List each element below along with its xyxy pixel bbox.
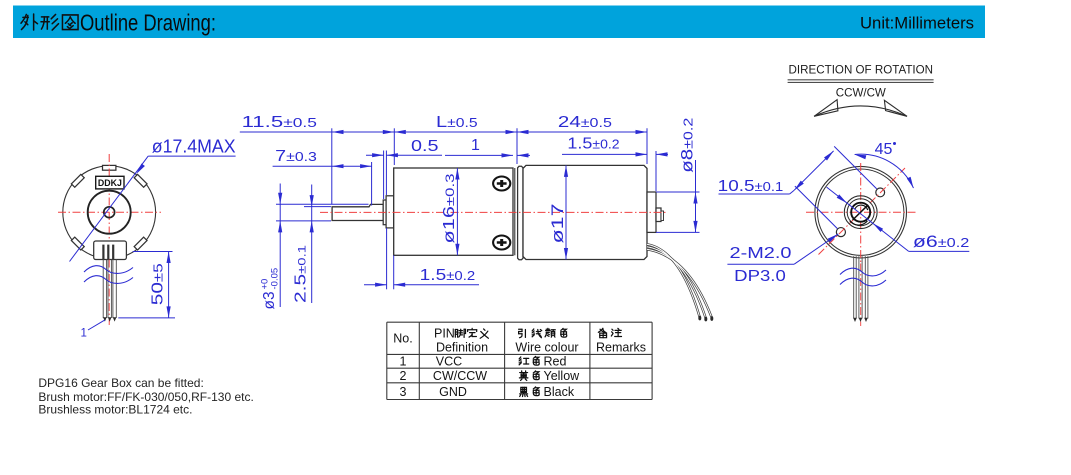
screw bottom: [493, 236, 510, 250]
svg-text:Definition: Definition: [436, 341, 488, 355]
dimension ø16±0.3: [441, 168, 460, 255]
svg-text:24±0.5: 24±0.5: [558, 114, 612, 131]
svg-text:1: 1: [81, 328, 87, 340]
dimension 24±0.5: [517, 114, 647, 164]
svg-text:1.5±0.2: 1.5±0.2: [567, 136, 619, 153]
front view gear ring circle: [88, 191, 131, 234]
svg-text:ø6±0.2: ø6±0.2: [913, 232, 969, 251]
rear view break lines (wavy): [840, 268, 886, 286]
svg-text:ø8±0.2: ø8±0.2: [679, 118, 697, 173]
side view red axis centerline: [320, 211, 668, 213]
rear view wires: [854, 256, 868, 318]
M2 screw hole top right: [876, 188, 885, 197]
rotation double arrow arc: [814, 100, 907, 117]
front view wire connector: [94, 241, 127, 260]
direction of rotation heading: [788, 63, 934, 100]
front view wires: [103, 260, 116, 319]
rear view red centerlines: [806, 163, 916, 264]
svg-text:ø16±0.3: ø16±0.3: [441, 173, 458, 243]
svg-text:Yellow: Yellow: [544, 369, 581, 383]
svg-text:Red: Red: [544, 355, 567, 369]
svg-text:No.: No.: [393, 332, 412, 346]
svg-text:L±0.5: L±0.5: [436, 114, 478, 131]
dimension 0.5: [366, 138, 442, 199]
dimension L±0.5: [394, 114, 517, 164]
dimension 50±5: [118, 252, 175, 318]
svg-text:CCW/CW: CCW/CW: [836, 86, 887, 100]
svg-text:7±0.3: 7±0.3: [275, 148, 317, 165]
screw top: [493, 177, 510, 191]
dimension 2.5±0.1: [292, 185, 331, 304]
side view shaft: [332, 204, 383, 220]
svg-text:3: 3: [400, 385, 407, 399]
shaft boss step 2: [386, 196, 394, 228]
notes text block: [38, 376, 253, 417]
svg-text:Remarks: Remarks: [596, 341, 646, 355]
motor rear shaft nub: [656, 208, 661, 222]
svg-text:11.5±0.5: 11.5±0.5: [242, 114, 317, 131]
pin definition table: [387, 322, 652, 399]
gearbox rear face line: [514, 168, 516, 255]
svg-text:Brushless motor:BL1724 etc.: Brushless motor:BL1724 etc.: [38, 402, 192, 416]
dimension 45°: [855, 141, 914, 188]
svg-text:45: 45: [875, 141, 893, 158]
table data rows: [400, 355, 581, 400]
svg-text:10.5±0.1: 10.5±0.1: [718, 178, 784, 195]
svg-text:PIN: PIN: [434, 327, 455, 341]
svg-text:DDKJ: DDKJ: [98, 178, 122, 188]
front view shaft circle: [104, 207, 115, 218]
rear center boss circles: [844, 196, 877, 229]
motor rear boss: [647, 192, 656, 232]
motor lead wires: [647, 244, 713, 321]
front view red centerline through wires: [108, 260, 110, 326]
M2 screw hole bottom left: [836, 228, 845, 237]
dimension 10.5±0.1: [718, 146, 877, 228]
svg-text:Black: Black: [544, 385, 575, 399]
svg-text:1: 1: [400, 355, 407, 369]
rear view red line through wires: [860, 264, 862, 327]
title bar: [13, 6, 985, 39]
front view wire tips: [103, 317, 116, 321]
motor can: [523, 165, 647, 259]
svg-text:GND: GND: [439, 385, 467, 399]
wire label 1 leader: [81, 320, 105, 340]
svg-text:0.5: 0.5: [411, 138, 439, 155]
gearbox body: [394, 168, 513, 255]
front view: red centerlines: [58, 154, 161, 260]
leader 2-M2.0 DP3.0: [727, 234, 838, 285]
svg-text:VCC: VCC: [436, 355, 462, 369]
svg-text:-0.05: -0.05: [270, 268, 281, 290]
dimension 1.5±0.2 top: [562, 136, 668, 191]
dimension 1: [445, 137, 530, 158]
front view break lines (wavy): [84, 266, 133, 284]
svg-text:2: 2: [400, 369, 407, 383]
rear wire tips: [853, 318, 868, 322]
dimension 7±0.3: [273, 148, 372, 205]
DDKJ logo: [96, 176, 124, 189]
svg-text:Wire colour: Wire colour: [515, 341, 578, 355]
dimension ø8±0.2: [656, 118, 700, 233]
dimension ø17: [548, 165, 568, 259]
svg-text:Outline Drawing:: Outline Drawing:: [80, 10, 216, 36]
svg-text:ø17: ø17: [548, 204, 567, 244]
front view motor outer circle: [63, 166, 156, 259]
svg-text:2-M2.0: 2-M2.0: [730, 245, 792, 262]
table header texts: [393, 327, 646, 355]
svg-text:1: 1: [471, 137, 480, 154]
svg-text:50±5: 50±5: [149, 263, 166, 305]
svg-text:DPG16 Gear Box can be fitted:: DPG16 Gear Box can be fitted:: [38, 376, 203, 390]
svg-text:Unit:Millimeters: Unit:Millimeters: [860, 15, 974, 33]
svg-text:DP3.0: DP3.0: [734, 268, 786, 285]
shaft boss step 1: [383, 200, 386, 225]
motor front ring: [518, 166, 523, 259]
dimension 1.5±0.2 bottom: [364, 228, 479, 289]
dimension ø17.4MAX leader: [70, 136, 236, 261]
svg-text:DIRECTION OF ROTATION: DIRECTION OF ROTATION: [789, 63, 934, 77]
svg-text:ø3: ø3: [261, 291, 278, 309]
dimension ø6±0.2 leader: [827, 187, 970, 251]
dimension 11.5±0.5: [240, 114, 394, 204]
front view mounting tabs: [71, 165, 147, 250]
svg-text:ø17.4MAX: ø17.4MAX: [152, 136, 236, 156]
rear view outer circles: [815, 166, 907, 258]
svg-text:2.5±0.1: 2.5±0.1: [292, 245, 309, 303]
dimension ø3 +0/-0.05: [260, 184, 369, 310]
svg-text:CW/CCW: CW/CCW: [433, 369, 487, 383]
svg-text:1.5±0.2: 1.5±0.2: [420, 267, 476, 284]
